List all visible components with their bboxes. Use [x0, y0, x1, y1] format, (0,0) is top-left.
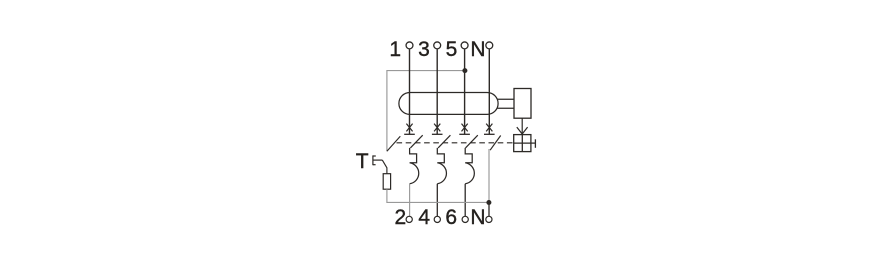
link: toroid secondary to trip relay (double line)	[498, 98, 515, 100]
switch blade pole 2	[438, 135, 450, 148]
wire: pole 1 lower (gray)	[409, 184, 411, 217]
terminal circle 4	[434, 216, 440, 222]
contact X pole N	[486, 124, 492, 132]
svg-text:N: N	[470, 38, 485, 61]
svg-text:N: N	[470, 206, 485, 229]
svg-text:2: 2	[395, 206, 407, 229]
wire: pole N junction to terminal	[488, 202, 490, 216]
wire: pole 2 upper (terminal 3 down to fixed contact)	[436, 49, 438, 134]
svg-text:6: 6	[445, 206, 457, 229]
test switch link to resistor	[382, 160, 387, 174]
mechanical linkage (dashed)	[397, 142, 514, 144]
fixed contact bar pole 1	[404, 133, 415, 135]
overcurrent release coil pole 3	[465, 148, 474, 184]
wire: pole 3 lower	[464, 184, 466, 217]
switch blade pole 3	[466, 135, 478, 148]
terminal circle 2	[406, 216, 412, 222]
svg-text:4: 4	[418, 206, 430, 229]
node: junction dot on N at bottom	[486, 200, 491, 205]
contact X pole 2	[434, 124, 440, 132]
svg-text:3: 3	[418, 38, 430, 61]
fixed contact bar pole N	[484, 133, 495, 135]
svg-text:5: 5	[446, 38, 458, 61]
terminal circle N top	[486, 42, 493, 49]
terminal circle 3	[434, 42, 441, 49]
contact X pole 3	[462, 124, 468, 132]
terminal circle 5	[461, 42, 468, 49]
wire: resistor to N junction (gray)	[387, 189, 489, 202]
wire: relay to trip mechanism with arrow	[521, 118, 523, 133]
wire: pole 3 upper (terminal 5 down to fixed contact)	[464, 49, 466, 134]
manual actuator stub on right of trip mechanism	[531, 142, 536, 144]
switch blade pole N	[490, 136, 501, 151]
wire: pole N upper (terminal N down to fixed contact)	[488, 49, 490, 134]
fixed contact bar pole 3	[459, 133, 470, 135]
switch blade pole 1	[410, 135, 422, 148]
wire: pole 2 lower	[436, 184, 438, 217]
wire: pole 1 upper (terminal 1 down to fixed contact)	[409, 49, 411, 134]
test button actuator	[373, 155, 382, 165]
current transformer toroid W1	[399, 93, 498, 115]
contact X pole 1	[406, 124, 412, 132]
overcurrent release coil pole 2	[437, 148, 446, 184]
terminal circle 6	[462, 216, 468, 222]
test switch blade	[387, 136, 400, 151]
svg-text:T: T	[356, 150, 369, 173]
svg-text:1: 1	[389, 38, 401, 61]
node: junction dot on line 5 at top	[462, 68, 467, 73]
wire: pole N lower to junction (gray)	[488, 149, 490, 202]
terminal circle 1	[406, 42, 413, 49]
terminal circle N bottom	[486, 216, 492, 222]
fixed contact bar pole 2	[432, 133, 443, 135]
wire: test tap from line 5 (top horizontal + left drop, gray)	[387, 71, 465, 152]
trip relay coil K1	[514, 89, 531, 119]
test resistor R	[383, 174, 390, 190]
overcurrent release coil pole 1	[410, 148, 419, 184]
trip mechanism (crossed square)	[514, 135, 531, 152]
